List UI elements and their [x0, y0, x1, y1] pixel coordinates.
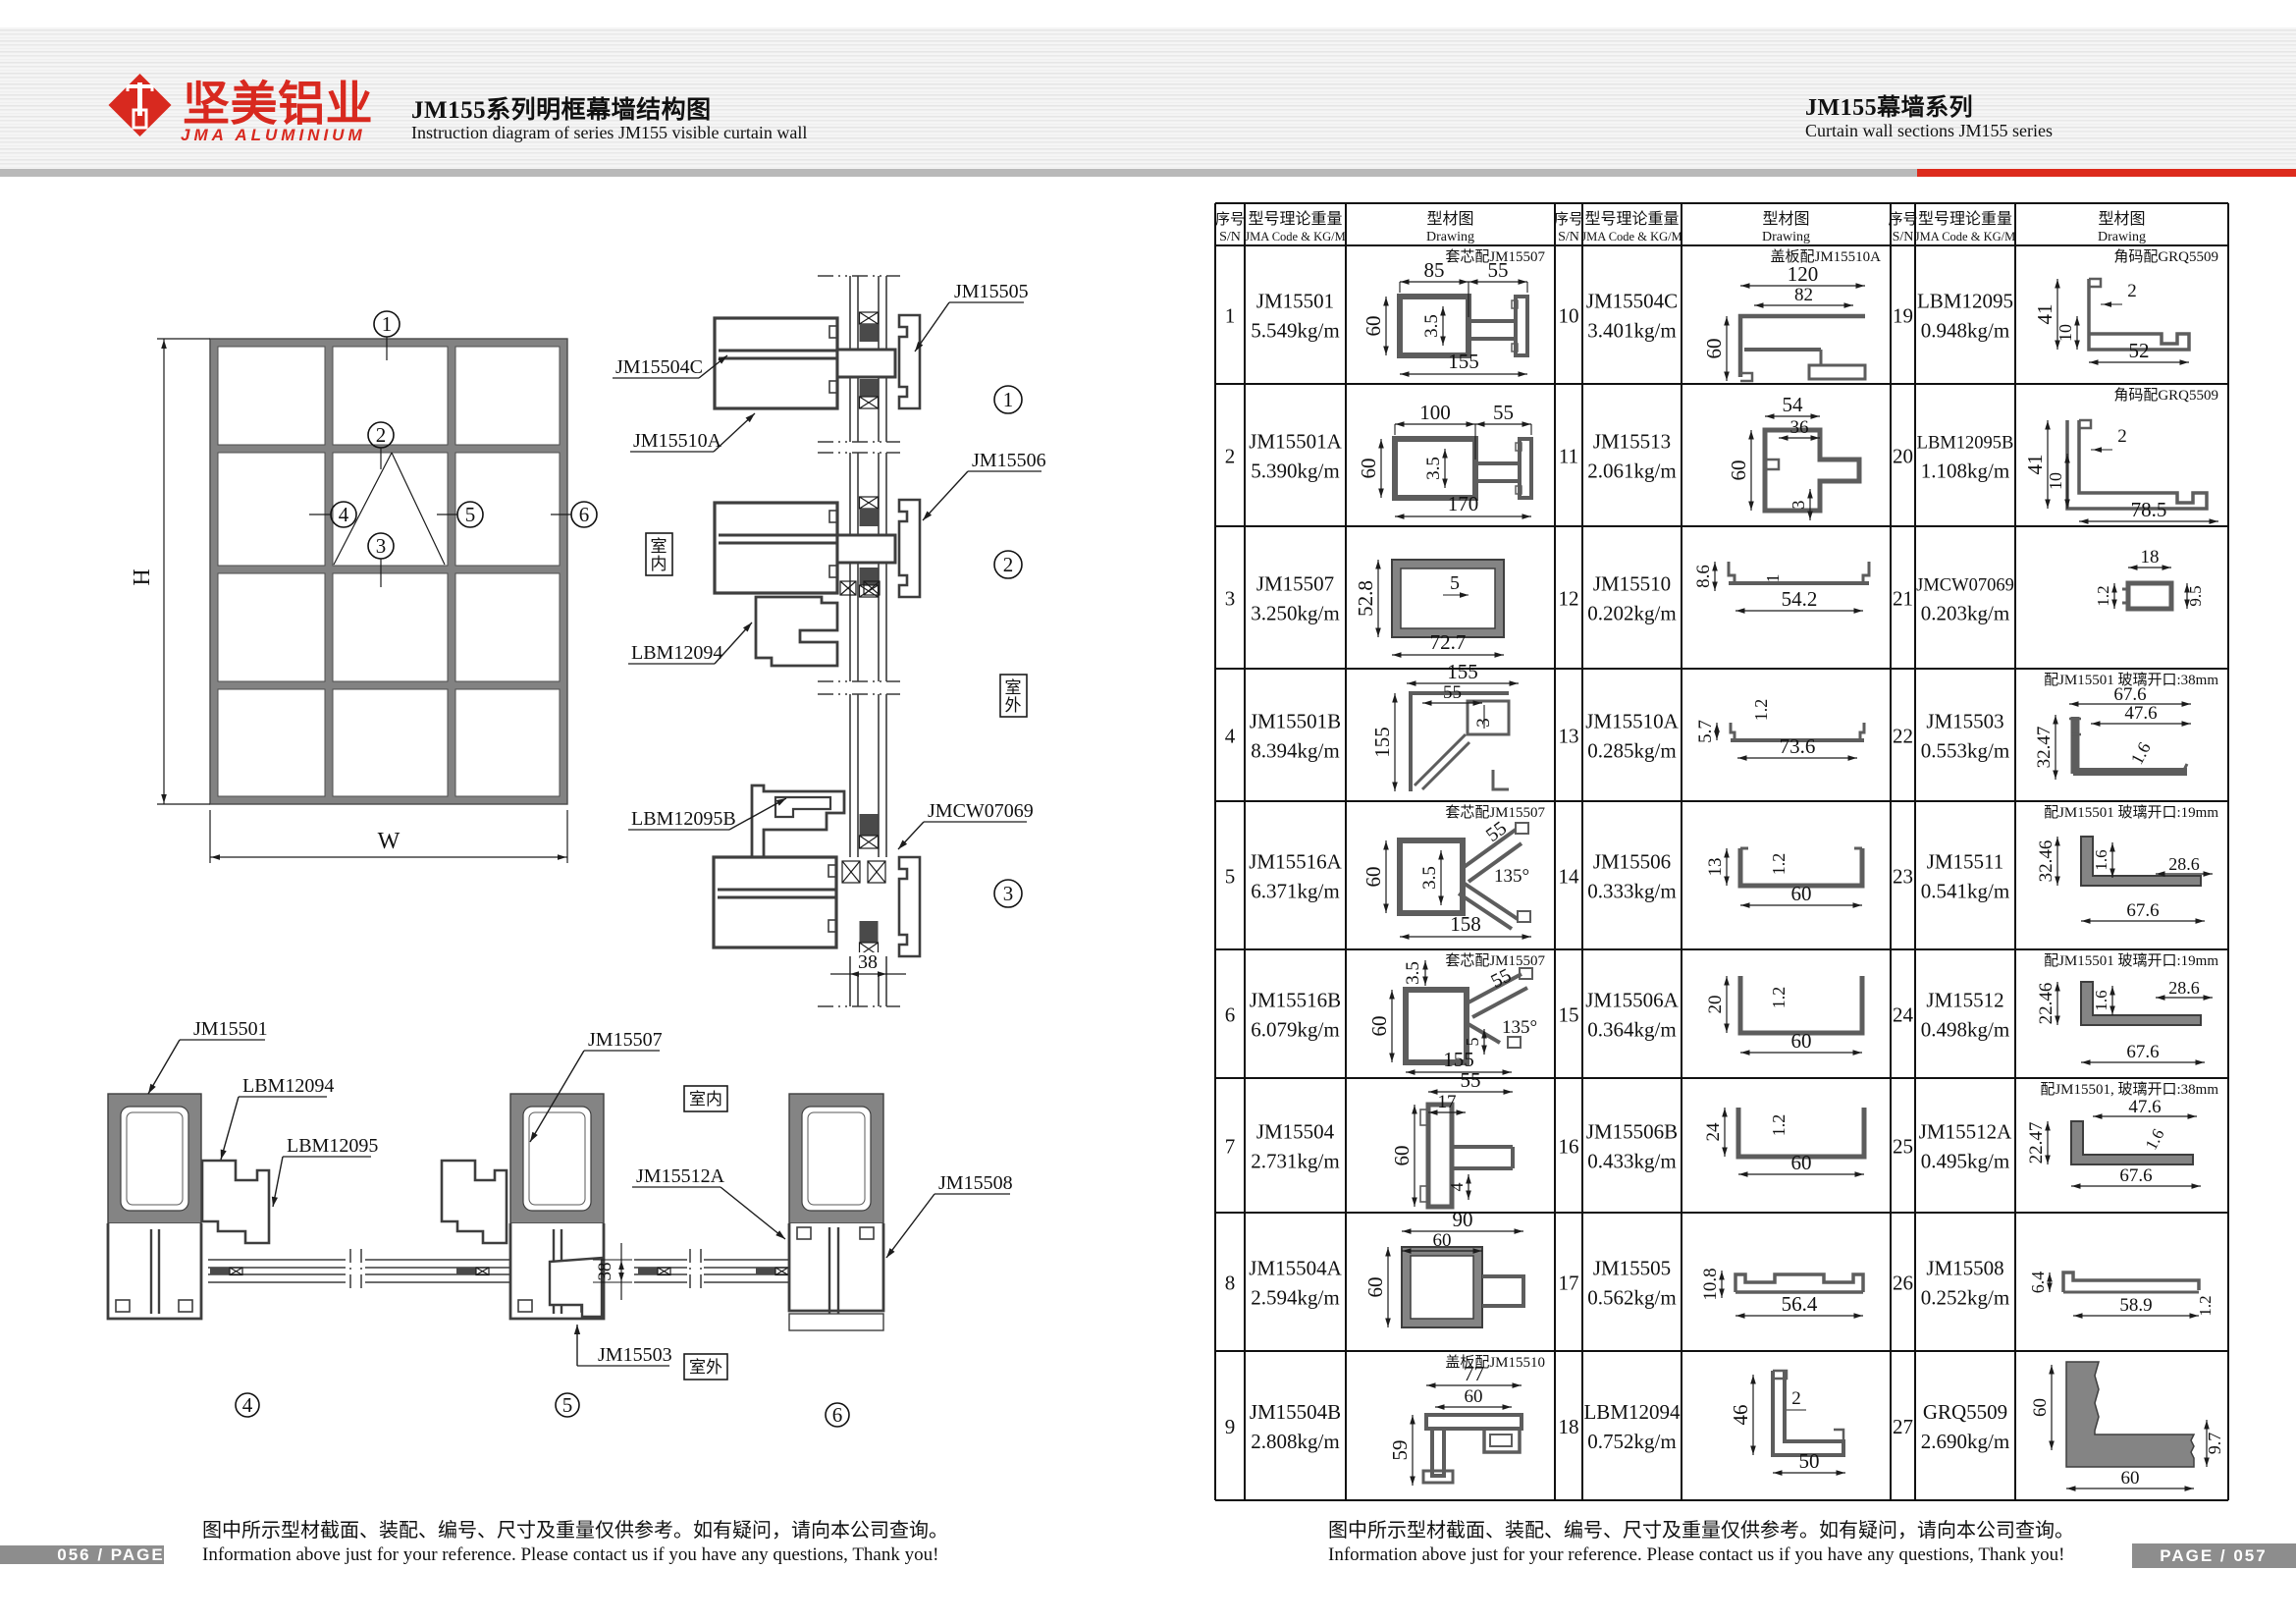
svg-text:22.46: 22.46	[2036, 983, 2056, 1025]
svg-text:3.5: 3.5	[1403, 961, 1423, 985]
svg-text:2.594kg/m: 2.594kg/m	[1251, 1286, 1339, 1310]
svg-text:JM15507: JM15507	[588, 1029, 663, 1051]
svg-text:10: 10	[1559, 304, 1579, 328]
svg-text:LBM12095: LBM12095	[1917, 290, 2013, 313]
svg-text:1.2: 1.2	[1769, 853, 1789, 876]
svg-text:3.5: 3.5	[1423, 457, 1444, 480]
logo JMA diamond	[109, 74, 172, 136]
profile drawing JM15505	[1735, 1274, 1863, 1292]
svg-text:Drawing: Drawing	[2098, 230, 2146, 244]
node 2	[368, 422, 394, 448]
svg-text:JM15510: JM15510	[1593, 572, 1671, 596]
svg-text:90: 90	[1453, 1208, 1473, 1231]
svg-text:JM15510A: JM15510A	[1585, 710, 1679, 733]
svg-text:JM15513: JM15513	[1593, 430, 1671, 454]
svg-text:58.9: 58.9	[2119, 1295, 2152, 1316]
profile drawing JM15508	[2063, 1272, 2199, 1292]
svg-text:套芯配JM15507: 套芯配JM15507	[1445, 952, 1545, 969]
svg-text:Drawing: Drawing	[1426, 230, 1474, 244]
svg-text:型材图: 型材图	[1762, 210, 1809, 228]
interior label 室内	[646, 533, 672, 575]
svg-text:12: 12	[1559, 587, 1579, 611]
svg-text:2: 2	[1225, 445, 1236, 468]
plan mullion JM15508 detail 6	[789, 1094, 883, 1223]
svg-text:3: 3	[376, 534, 387, 558]
svg-text:0.252kg/m: 0.252kg/m	[1921, 1286, 2009, 1310]
cover cap JM15505	[899, 315, 920, 408]
node 6	[571, 502, 597, 527]
svg-text:67.6: 67.6	[2113, 684, 2146, 705]
svg-text:JM15508: JM15508	[938, 1172, 1013, 1194]
svg-text:10: 10	[2056, 324, 2075, 342]
svg-text:0.364kg/m: 0.364kg/m	[1587, 1018, 1676, 1042]
svg-text:JMCW07069: JMCW07069	[1916, 576, 2014, 596]
svg-text:22: 22	[1893, 725, 1913, 748]
svg-text:18: 18	[1559, 1415, 1579, 1438]
svg-text:135°: 135°	[1494, 866, 1529, 887]
svg-text:25: 25	[1893, 1135, 1913, 1159]
svg-text:盖板配JM15510: 盖板配JM15510	[1445, 1353, 1545, 1371]
svg-text:77: 77	[1464, 1362, 1484, 1385]
svg-text:JM15506: JM15506	[972, 450, 1046, 471]
svg-text:JM15505: JM15505	[1593, 1257, 1671, 1280]
spacers	[210, 1268, 230, 1275]
svg-text:JM15507: JM15507	[1256, 572, 1334, 596]
svg-text:21: 21	[1893, 587, 1913, 611]
interior label 2	[684, 1086, 727, 1111]
svg-text:0.553kg/m: 0.553kg/m	[1921, 739, 2009, 763]
svg-text:JM15505: JM15505	[954, 281, 1029, 302]
spacer detail 1 upper	[860, 312, 879, 324]
svg-text:型号理论重量: 型号理论重量	[1248, 210, 1342, 228]
svg-text:158: 158	[1450, 912, 1481, 936]
svg-text:155: 155	[1447, 660, 1478, 683]
svg-text:60: 60	[2121, 1468, 2140, 1489]
svg-text:056 / PAGE: 056 / PAGE	[57, 1545, 164, 1564]
svg-text:22.47: 22.47	[2026, 1122, 2047, 1164]
center web detail 6	[828, 1227, 830, 1327]
profile LBM12094 under detail 2	[756, 597, 837, 666]
svg-text:18: 18	[2141, 547, 2160, 568]
profile drawing LBM12094	[1773, 1371, 1843, 1455]
svg-text:JMA Code & KG/M: JMA Code & KG/M	[1581, 230, 1682, 244]
svg-text:85: 85	[1424, 258, 1445, 282]
svg-text:14: 14	[1559, 865, 1580, 889]
svg-text:60: 60	[1791, 1151, 1812, 1174]
svg-text:1.6: 1.6	[2142, 1126, 2168, 1154]
svg-text:JM15504A: JM15504A	[1249, 1257, 1342, 1280]
svg-text:序号: 序号	[1215, 211, 1245, 228]
svg-text:9.7: 9.7	[2205, 1433, 2224, 1455]
svg-text:60: 60	[1362, 867, 1385, 888]
svg-text:10: 10	[2046, 472, 2065, 490]
svg-text:9.5: 9.5	[2186, 585, 2205, 606]
svg-text:5: 5	[562, 1393, 573, 1417]
svg-text:H: H	[130, 568, 155, 585]
svg-text:序号: 序号	[1888, 211, 1917, 228]
svg-text:1.2: 1.2	[1751, 699, 1771, 722]
svg-text:155: 155	[1448, 350, 1479, 373]
svg-text:59: 59	[1388, 1440, 1412, 1461]
svg-text:41: 41	[2033, 304, 2056, 325]
svg-text:型材图: 型材图	[1426, 210, 1473, 228]
svg-text:1.2: 1.2	[2094, 585, 2112, 606]
svg-text:73.6: 73.6	[1780, 734, 1816, 758]
svg-text:Curtain wall sections JM155 se: Curtain wall sections JM155 series	[1805, 121, 2053, 140]
svg-text:60: 60	[1433, 1230, 1452, 1251]
svg-text:1: 1	[1763, 574, 1783, 583]
svg-text:1.2: 1.2	[1769, 1114, 1789, 1137]
profile drawing GRQ5509	[2066, 1362, 2194, 1467]
svg-text:GRQ5509: GRQ5509	[1923, 1400, 2007, 1424]
svg-text:4: 4	[1225, 725, 1236, 748]
svg-text:内: 内	[651, 555, 667, 573]
svg-text:60: 60	[1791, 1029, 1812, 1053]
svg-text:32.46: 32.46	[2036, 840, 2056, 883]
svg-text:60: 60	[1465, 1386, 1483, 1407]
svg-text:170: 170	[1448, 492, 1479, 515]
svg-text:5: 5	[1463, 1038, 1482, 1047]
window open triangle symbol	[334, 453, 392, 565]
svg-text:角码配GRQ5509: 角码配GRQ5509	[2113, 248, 2218, 265]
svg-text:13: 13	[1705, 858, 1726, 877]
svg-text:JM15506: JM15506	[1593, 850, 1671, 874]
svg-text:1.108kg/m: 1.108kg/m	[1921, 460, 2009, 483]
svg-text:0.285kg/m: 0.285kg/m	[1587, 739, 1676, 763]
svg-text:55: 55	[1443, 682, 1462, 703]
svg-text:6.079kg/m: 6.079kg/m	[1251, 1018, 1339, 1042]
svg-text:JM15501: JM15501	[193, 1018, 268, 1040]
svg-text:2: 2	[376, 423, 387, 447]
svg-text:PAGE / 057: PAGE / 057	[2160, 1546, 2267, 1565]
svg-text:室内: 室内	[689, 1090, 722, 1109]
svg-text:0.562kg/m: 0.562kg/m	[1587, 1286, 1676, 1310]
profile LBM12095 beside detail 5	[442, 1161, 507, 1243]
svg-text:1.2: 1.2	[1769, 987, 1789, 1009]
svg-text:5: 5	[465, 503, 476, 526]
svg-text:图中所示型材截面、装配、编号、尺寸及重量仅供参考。如有疑问，: 图中所示型材截面、装配、编号、尺寸及重量仅供参考。如有疑问，请向本公司查询。	[202, 1519, 948, 1542]
profile drawing JM15506	[1740, 848, 1862, 886]
svg-text:LBM12095: LBM12095	[287, 1135, 378, 1157]
node 2 circle	[994, 551, 1022, 578]
svg-text:坚美铝业: 坚美铝业	[183, 79, 373, 131]
svg-text:JM15511: JM15511	[1927, 850, 2004, 874]
svg-text:3: 3	[1789, 501, 1808, 510]
svg-text:1: 1	[1003, 388, 1014, 411]
svg-text:54: 54	[1783, 393, 1804, 416]
svg-text:1.2: 1.2	[2196, 1295, 2215, 1316]
svg-text:60: 60	[1390, 1146, 1414, 1166]
svg-text:S/N: S/N	[1558, 230, 1579, 244]
svg-text:0.203kg/m: 0.203kg/m	[1921, 602, 2009, 625]
svg-text:2.690kg/m: 2.690kg/m	[1921, 1430, 2009, 1453]
H dimension	[157, 338, 210, 340]
svg-text:5.7: 5.7	[1695, 720, 1716, 743]
svg-text:配JM15501 玻璃开口:19mm: 配JM15501 玻璃开口:19mm	[2044, 952, 2218, 969]
svg-text:17: 17	[1559, 1272, 1579, 1295]
svg-text:8.6: 8.6	[1693, 565, 1714, 588]
node 5	[457, 502, 483, 527]
svg-text:28.6: 28.6	[2168, 854, 2200, 874]
svg-text:0.333kg/m: 0.333kg/m	[1587, 880, 1676, 903]
svg-text:1: 1	[1225, 304, 1236, 328]
svg-text:1.6: 1.6	[2127, 739, 2155, 768]
svg-text:78.5: 78.5	[2131, 498, 2167, 521]
svg-text:外: 外	[1005, 696, 1022, 715]
divider bar red segment	[1917, 169, 2296, 177]
profile drawing JM15504A	[1402, 1247, 1482, 1327]
cover cap JM15506	[899, 500, 920, 597]
svg-text:JM15504C: JM15504C	[615, 356, 703, 378]
glass run detail 4 to 5	[208, 1259, 346, 1261]
svg-text:155: 155	[1370, 727, 1394, 758]
profile drawing JM15506A	[1740, 976, 1862, 1033]
svg-text:19: 19	[1893, 304, 1913, 328]
svg-text:型材图: 型材图	[2098, 210, 2145, 228]
svg-text:17: 17	[1438, 1092, 1457, 1112]
profile LBM12094 beside detail 4	[202, 1161, 269, 1243]
svg-text:S/N: S/N	[1893, 230, 1914, 244]
svg-text:JM15512: JM15512	[1926, 989, 2003, 1012]
svg-text:JM15504C: JM15504C	[1586, 290, 1678, 313]
svg-text:27: 27	[1893, 1415, 1913, 1438]
svg-text:24: 24	[1893, 1003, 1914, 1027]
svg-text:JM15501A: JM15501A	[1249, 430, 1342, 454]
svg-text:55: 55	[1488, 258, 1509, 282]
svg-text:10.8: 10.8	[1700, 1268, 1721, 1300]
svg-text:JM15503: JM15503	[1926, 710, 2003, 733]
profile LBM12095B top of detail 3	[752, 785, 844, 857]
svg-text:60: 60	[1357, 459, 1380, 479]
svg-text:52: 52	[2129, 339, 2150, 362]
svg-text:4: 4	[242, 1393, 253, 1417]
profile drawing JM15513	[1765, 430, 1859, 511]
svg-text:60: 60	[2030, 1398, 2051, 1417]
svg-text:序号: 序号	[1554, 211, 1583, 228]
node 1 circle	[994, 386, 1022, 413]
svg-text:6: 6	[1225, 1003, 1236, 1027]
exterior label 室外	[1000, 675, 1027, 717]
profile drawing JM15501A	[1395, 439, 1475, 498]
bead JM15503 on detail 5	[550, 1258, 602, 1317]
glass break vertical	[349, 1249, 351, 1293]
svg-text:60: 60	[1702, 339, 1726, 359]
svg-text:55: 55	[1461, 1068, 1481, 1092]
svg-text:配JM15501 玻璃开口:19mm: 配JM15501 玻璃开口:19mm	[2044, 804, 2218, 821]
svg-text:2: 2	[1791, 1388, 1801, 1409]
svg-text:2: 2	[2117, 426, 2127, 447]
svg-text:82: 82	[1794, 285, 1813, 305]
striped header band	[0, 27, 2296, 170]
svg-text:JM155幕墙系列: JM155幕墙系列	[1805, 93, 1973, 121]
svg-text:S/N: S/N	[1219, 230, 1241, 244]
svg-text:JM15512A: JM15512A	[636, 1165, 725, 1187]
svg-text:1.6: 1.6	[2092, 849, 2110, 870]
svg-text:JMA ALUMINIUM: JMA ALUMINIUM	[181, 126, 366, 144]
svg-text:15: 15	[1559, 1003, 1579, 1027]
svg-text:2.808kg/m: 2.808kg/m	[1251, 1430, 1339, 1453]
profile drawing JM15510A	[1731, 723, 1864, 740]
svg-text:38: 38	[595, 1263, 615, 1281]
svg-text:8: 8	[1225, 1272, 1236, 1295]
svg-text:100: 100	[1419, 401, 1451, 424]
svg-text:5: 5	[1450, 572, 1460, 594]
svg-text:JMCW07069: JMCW07069	[928, 800, 1034, 822]
svg-text:JM15504B: JM15504B	[1250, 1400, 1341, 1424]
svg-text:JMA Code & KG/M: JMA Code & KG/M	[1245, 230, 1345, 244]
svg-text:2.061kg/m: 2.061kg/m	[1587, 460, 1676, 483]
transom JM15504C detail 1	[715, 318, 837, 408]
svg-text:2.731kg/m: 2.731kg/m	[1251, 1150, 1339, 1173]
profile drawing JM15506B	[1738, 1108, 1864, 1157]
svg-text:3.5: 3.5	[1421, 314, 1442, 338]
svg-text:24: 24	[1703, 1122, 1724, 1142]
node 3 circle	[994, 880, 1022, 907]
W dimension	[209, 810, 211, 863]
svg-text:LBM12095B: LBM12095B	[631, 808, 736, 830]
small blocks under detail2 arm	[840, 581, 856, 595]
svg-text:型号理论重量: 型号理论重量	[1918, 210, 2012, 228]
svg-text:20: 20	[1705, 996, 1726, 1014]
svg-text:36: 36	[1790, 417, 1809, 438]
svg-text:23: 23	[1893, 865, 1913, 889]
svg-text:JM15501: JM15501	[1256, 290, 1334, 313]
svg-text:6: 6	[579, 503, 590, 526]
profile drawing JM15501B	[1411, 693, 1509, 791]
plan mullion JM15507 detail 5	[510, 1094, 604, 1223]
svg-text:JM15516A: JM15516A	[1249, 850, 1342, 874]
dim 38 vertical	[593, 1259, 632, 1261]
svg-text:3.250kg/m: 3.250kg/m	[1251, 602, 1339, 625]
svg-text:6.4: 6.4	[2028, 1272, 2048, 1294]
svg-text:54.2: 54.2	[1782, 587, 1818, 611]
arm to glass detail 1	[837, 350, 895, 377]
profile drawing JM15510	[1729, 562, 1869, 583]
svg-text:56.4: 56.4	[1782, 1292, 1818, 1316]
svg-text:50: 50	[1799, 1449, 1820, 1473]
svg-text:JM15501B: JM15501B	[1250, 710, 1341, 733]
svg-text:0.433kg/m: 0.433kg/m	[1587, 1150, 1676, 1173]
svg-text:28.6: 28.6	[2168, 978, 2200, 998]
svg-text:60: 60	[1367, 1016, 1391, 1037]
svg-text:型号理论重量: 型号理论重量	[1584, 210, 1679, 228]
profile drawing JM15507	[1392, 560, 1504, 637]
svg-text:67.6: 67.6	[2126, 900, 2159, 921]
svg-text:8.394kg/m: 8.394kg/m	[1251, 739, 1339, 763]
node 3	[368, 533, 394, 559]
svg-text:5: 5	[1225, 865, 1236, 889]
svg-text:47.6: 47.6	[2128, 1097, 2161, 1117]
svg-text:0.202kg/m: 0.202kg/m	[1587, 602, 1676, 625]
curtain wall elevation grid	[210, 339, 567, 804]
svg-text:9: 9	[1225, 1415, 1236, 1438]
vertical mullion glass line	[849, 276, 851, 442]
svg-text:JMA Code & KG/M: JMA Code & KG/M	[1915, 230, 2015, 244]
svg-text:JM15516B: JM15516B	[1250, 989, 1341, 1012]
left page number box	[0, 1545, 164, 1564]
node 5 circle	[556, 1393, 579, 1417]
svg-text:4: 4	[1447, 1183, 1467, 1192]
svg-text:47.6: 47.6	[2124, 703, 2157, 724]
svg-text:3.5: 3.5	[1419, 866, 1440, 890]
svg-text:0.752kg/m: 0.752kg/m	[1587, 1430, 1676, 1453]
svg-text:室: 室	[651, 537, 667, 556]
svg-text:2: 2	[2127, 281, 2137, 301]
svg-text:41: 41	[2023, 455, 2047, 475]
svg-text:1: 1	[382, 312, 393, 336]
svg-text:1.6: 1.6	[2092, 990, 2110, 1010]
svg-text:7: 7	[1225, 1135, 1236, 1159]
svg-text:室外: 室外	[689, 1358, 722, 1377]
svg-text:13: 13	[1559, 725, 1579, 748]
svg-text:11: 11	[1559, 445, 1578, 468]
exterior label 2	[684, 1354, 727, 1380]
svg-text:3: 3	[1225, 587, 1236, 611]
svg-text:JM155系列明框幕墙结构图: JM155系列明框幕墙结构图	[411, 96, 712, 124]
svg-text:46: 46	[1729, 1405, 1752, 1426]
right page number box	[2132, 1543, 2296, 1568]
node 4	[331, 502, 356, 527]
svg-text:26: 26	[1893, 1272, 1913, 1295]
node 1	[374, 311, 400, 337]
svg-text:Instruction diagram of series: Instruction diagram of series JM155 visi…	[411, 123, 807, 142]
svg-text:W: W	[378, 829, 400, 854]
svg-text:3: 3	[1003, 882, 1014, 905]
svg-text:LBM12095B: LBM12095B	[1917, 434, 2014, 454]
svg-text:20: 20	[1893, 445, 1913, 468]
svg-text:60: 60	[1363, 1277, 1387, 1298]
transom detail 3	[714, 857, 836, 947]
svg-text:0.495kg/m: 0.495kg/m	[1921, 1150, 2009, 1173]
cover cap JMCW07069	[899, 857, 920, 956]
svg-text:67.6: 67.6	[2126, 1042, 2159, 1062]
svg-text:JM15510A: JM15510A	[633, 430, 722, 452]
svg-text:67.6: 67.6	[2119, 1165, 2152, 1186]
svg-text:0.948kg/m: 0.948kg/m	[1921, 319, 2009, 343]
svg-text:角码配GRQ5509: 角码配GRQ5509	[2113, 387, 2218, 404]
spacer above detail 3	[860, 814, 879, 836]
svg-text:配JM15501, 玻璃开口:38mm: 配JM15501, 玻璃开口:38mm	[2040, 1081, 2218, 1098]
svg-text:5.549kg/m: 5.549kg/m	[1251, 319, 1339, 343]
profile drawing JM15504	[1428, 1105, 1452, 1207]
svg-text:JM15506A: JM15506A	[1585, 989, 1679, 1012]
svg-text:2: 2	[1003, 553, 1014, 576]
svg-text:LBM12094: LBM12094	[242, 1075, 334, 1097]
svg-text:60: 60	[1362, 316, 1385, 337]
svg-text:6: 6	[832, 1403, 843, 1427]
spacer detail 1 lower	[860, 379, 879, 397]
transom detail 2	[715, 503, 837, 593]
svg-text:52.8: 52.8	[1354, 580, 1377, 617]
divider bar gray	[0, 169, 1917, 177]
svg-text:图中所示型材截面、装配、编号、尺寸及重量仅供参考。如有疑问，: 图中所示型材截面、装配、编号、尺寸及重量仅供参考。如有疑问，请向本公司查询。	[1328, 1519, 2074, 1542]
svg-text:Drawing: Drawing	[1762, 230, 1810, 244]
table grid	[1215, 202, 2228, 204]
svg-text:135°: 135°	[1502, 1017, 1537, 1038]
spacer below detail 3	[860, 921, 879, 943]
dim 38 glass	[853, 952, 882, 972]
svg-text:JM15508: JM15508	[1926, 1257, 2003, 1280]
base bar detail 6	[789, 1314, 883, 1330]
svg-text:Information above just for you: Information above just for your referenc…	[202, 1544, 938, 1565]
svg-text:55: 55	[1482, 817, 1511, 846]
svg-text:16: 16	[1559, 1135, 1579, 1159]
svg-text:室: 室	[1005, 678, 1022, 697]
glass break marks	[818, 275, 900, 277]
svg-text:5.390kg/m: 5.390kg/m	[1251, 460, 1339, 483]
svg-text:LBM12094: LBM12094	[631, 642, 722, 664]
svg-text:38: 38	[858, 951, 878, 973]
